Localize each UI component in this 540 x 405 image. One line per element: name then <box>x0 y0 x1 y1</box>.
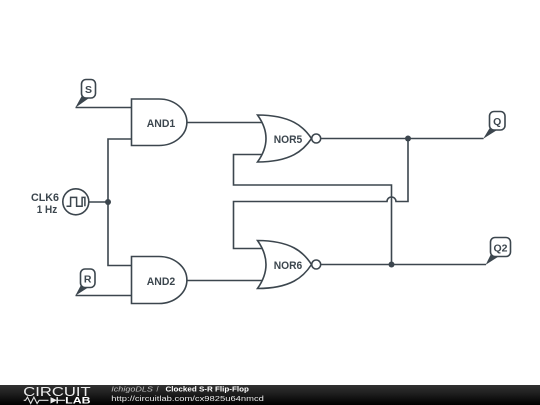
footer bar <box>0 385 540 405</box>
and-gate AND1 <box>132 99 187 146</box>
nor-gate NOR6 <box>258 241 321 289</box>
svg-text:IchigoDLS: IchigoDLS <box>111 385 153 394</box>
svg-text:CLK6: CLK6 <box>31 192 59 204</box>
svg-text:1 Hz: 1 Hz <box>37 204 58 216</box>
svg-text:S: S <box>85 84 92 96</box>
junction node Q line <box>405 136 411 142</box>
svg-text:NOR6: NOR6 <box>274 260 303 272</box>
svg-text:Clocked S-R Flip-Flop: Clocked S-R Flip-Flop <box>166 385 250 394</box>
svg-text:/: / <box>157 385 160 394</box>
svg-text:Q2: Q2 <box>493 242 507 254</box>
wire feedback NOR6 output to NOR5 input B <box>234 155 392 265</box>
junction node clock bus <box>105 199 111 205</box>
CircuitLab logo and credits <box>0 384 540 405</box>
wire S flag to AND1 input A <box>76 107 132 109</box>
flag S <box>75 80 95 108</box>
svg-text:R: R <box>84 274 92 286</box>
nor-gate NOR5 <box>258 115 321 162</box>
svg-text:AND1: AND1 <box>147 118 176 130</box>
wire AND1 output to NOR5 input A <box>187 122 262 124</box>
svg-text:Q: Q <box>493 116 501 128</box>
wire R flag to AND2 input B <box>76 295 132 297</box>
junction node Q2 line <box>389 262 395 268</box>
wire clock bus: AND1 input B down to AND2 input A <box>108 139 132 266</box>
flag Q2 <box>486 238 511 265</box>
svg-text:AND2: AND2 <box>147 276 176 288</box>
wire feedback NOR5 output to NOR6 input A (with hop over crossing) <box>234 139 409 249</box>
wire clock output to bus <box>89 201 108 203</box>
svg-text:http://circuitlab.com/cx9825u6: http://circuitlab.com/cx9825u64nmcd <box>111 394 264 403</box>
wire AND2 output to NOR6 input B <box>187 280 262 282</box>
flag Q <box>483 112 505 139</box>
flag R <box>75 269 95 296</box>
and-gate AND2 <box>132 257 187 304</box>
svg-text:NOR5: NOR5 <box>274 134 303 146</box>
wire NOR5 output to Q flag <box>321 138 484 140</box>
svg-text:LAB: LAB <box>65 395 90 405</box>
wire NOR6 output to Q2 flag <box>321 264 486 266</box>
clock source CLK6 <box>31 189 89 216</box>
